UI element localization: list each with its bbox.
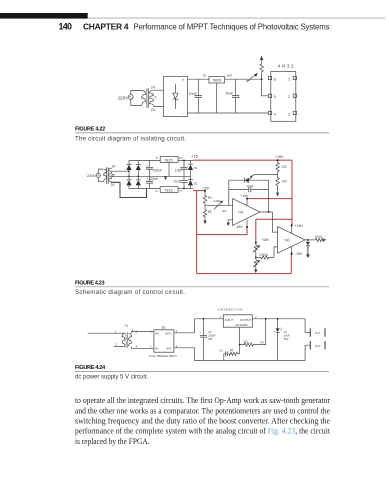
diode D1 inside rectifier	[173, 84, 178, 109]
svg-text:IN+: IN+	[155, 331, 160, 335]
svg-text:-: -	[182, 111, 184, 116]
red op1 -15V drop	[197, 227, 247, 235]
svg-text:R3: R3	[282, 165, 286, 169]
svg-text:741: 741	[238, 210, 244, 214]
svg-text:J2-1: J2-1	[315, 331, 321, 335]
svg-text:741: 741	[284, 238, 290, 242]
node -15	[204, 190, 206, 192]
red pot supply drop	[255, 219, 257, 242]
svg-text:out: out	[179, 189, 183, 193]
svg-text:24: 24	[112, 164, 116, 168]
capacitor C5 and resistor R4 chain	[219, 345, 240, 361]
svg-text:switching frequency and the du: switching frequency and the duty ratio o…	[75, 416, 330, 426]
svg-text:+15V: +15V	[295, 224, 304, 228]
bridge rectifier box	[164, 76, 188, 116]
svg-text:24: 24	[151, 108, 155, 112]
svg-text:is replaced by the FPGA.: is replaced by the FPGA.	[75, 436, 150, 446]
svg-text:4: 4	[274, 112, 276, 116]
svg-text:+15V: +15V	[241, 194, 250, 198]
svg-text:10uF: 10uF	[189, 92, 198, 96]
node adj	[239, 344, 241, 346]
capacitor C4 100uF	[146, 176, 158, 188]
node output	[307, 239, 309, 241]
diode D6 protection top	[188, 160, 198, 176]
svg-text:2: 2	[288, 95, 290, 99]
wire 7815 gnd stub	[168, 163, 170, 177]
capacitor C5 10uF	[175, 160, 188, 176]
transformer TR1 secondary	[150, 90, 154, 106]
svg-text:-15V: -15V	[202, 187, 210, 191]
center tap hook	[112, 174, 114, 176]
red left drop	[196, 191, 198, 274]
connector J2-1	[305, 319, 325, 337]
node cap6 bottom	[183, 188, 185, 190]
LED D2 with C2 labels	[274, 318, 291, 361]
svg-text:LM7805CTVS: LM7805CTVS	[218, 308, 242, 312]
wire source loop	[131, 91, 142, 106]
capacitor C3 100uF	[146, 160, 162, 176]
svg-text:to operate all the integrated: to operate all the integrated circuits. …	[75, 395, 330, 405]
node op1 -15V	[246, 226, 248, 228]
svg-text:0: 0	[154, 96, 156, 100]
pin 3	[293, 111, 296, 114]
capacitor C1 10uF	[189, 79, 202, 113]
wire - rail to 7915	[129, 187, 160, 189]
resistor R3	[276, 159, 287, 174]
pin 4	[268, 111, 271, 114]
node op2 +15V	[291, 224, 293, 226]
svg-text:OUT: OUT	[166, 346, 172, 350]
svg-text:100k: 100k	[214, 199, 221, 203]
svg-text:CHAPTER 4: CHAPTER 4	[83, 21, 129, 31]
diode D2 bridge col1 bottom	[126, 180, 131, 189]
AC source V2 220V	[87, 173, 100, 178]
svg-text:10uF: 10uF	[173, 179, 180, 183]
svg-text:FIGURE 4.23: FIGURE 4.23	[75, 280, 105, 286]
svg-text:OUT+: OUT+	[165, 331, 173, 335]
zener pair D8	[244, 175, 253, 183]
svg-text:2: 2	[255, 315, 257, 319]
svg-text:C1: C1	[208, 330, 212, 334]
red right drop to op amps	[291, 160, 293, 225]
AC source V1 220V	[118, 95, 134, 101]
svg-text:+: +	[274, 330, 276, 334]
pin 6	[268, 76, 271, 79]
svg-text:R5: R5	[222, 209, 226, 213]
op2 -15V stub	[291, 247, 293, 254]
svg-text:OUTPUT: OUTPUT	[240, 318, 252, 322]
svg-text:10uF: 10uF	[175, 169, 182, 173]
op-amp U5 741 sawtooth	[233, 199, 260, 226]
transformer core	[107, 167, 109, 184]
red feed pot rail	[256, 218, 292, 220]
node cap5 top	[183, 160, 185, 162]
wire source loop	[98, 169, 103, 182]
ground arrow pot chain	[254, 270, 257, 274]
ground arrow mid rail	[164, 176, 167, 180]
wire ac input bottom	[114, 345, 122, 347]
wire 7805 ground stub	[216, 83, 218, 113]
wire divider to op1 inv input	[205, 204, 233, 206]
regulator U3 7815	[156, 155, 183, 162]
diode D9 output	[306, 240, 310, 255]
node feedback-output	[268, 211, 270, 213]
wire bridge out+ to rail	[174, 319, 223, 333]
svg-text:C5: C5	[219, 348, 223, 352]
wire regulator output rail	[252, 318, 305, 320]
resistor R4	[276, 175, 287, 193]
node A junction	[261, 78, 263, 80]
svg-text:1: 1	[220, 315, 222, 319]
svg-text:+15V: +15V	[261, 238, 270, 242]
potentiometer R2 arrow	[246, 73, 258, 82]
potentiometer R5 100k	[214, 199, 227, 213]
feedback box top wire	[229, 180, 269, 212]
svg-text:ADJ/GND: ADJ/GND	[235, 323, 247, 327]
transformer TR1 primary	[142, 91, 146, 106]
svg-text:D1: D1	[162, 326, 166, 330]
svg-text:-15V: -15V	[236, 225, 244, 229]
header bar	[0, 13, 88, 19]
svg-text:The circuit diagram of isolati: The circuit diagram of isolating circuit…	[75, 135, 186, 142]
svg-text:+15V: +15V	[275, 155, 284, 159]
regulator U1 7805	[203, 74, 231, 83]
wire bridge out- to ground rail	[174, 348, 195, 361]
capacitor C1	[199, 318, 216, 361]
resistor R9 100ohm	[315, 234, 324, 241]
diode D1 bridge col1 top	[126, 160, 131, 180]
svg-text:FIGURE 4.24: FIGURE 4.24	[75, 365, 106, 371]
svg-text:out: out	[227, 74, 232, 78]
svg-text:3: 3	[288, 112, 290, 116]
op1 +15V stub	[246, 199, 248, 206]
wire node to pin5	[262, 79, 269, 96]
svg-text:120: 120	[243, 340, 248, 344]
resistor R1	[203, 191, 212, 205]
resistor R1 feedback	[240, 318, 267, 346]
op-amp U6 741 comparator	[278, 227, 306, 254]
node pot tap	[255, 257, 257, 259]
potentiometer R8	[253, 257, 260, 269]
svg-text:5: 5	[274, 95, 276, 99]
svg-text:R4: R4	[230, 348, 234, 352]
full bridge rectifier D1	[149, 326, 178, 358]
svg-text:FULL BRIDGE RECT: FULL BRIDGE RECT	[149, 354, 177, 358]
node mid-col2	[137, 175, 139, 177]
svg-text:4N32: 4N32	[278, 63, 295, 68]
svg-text:24: 24	[151, 85, 155, 89]
wire secondary to bridge top	[131, 332, 154, 334]
svg-text:T1: T1	[124, 324, 128, 328]
red bottom rail	[197, 273, 292, 275]
svg-text:10uF: 10uF	[284, 334, 290, 338]
svg-text:in: in	[203, 74, 206, 78]
wire secondary to bridge bottom	[131, 347, 154, 349]
red riser to op2 -15V	[290, 254, 292, 274]
resistor R7 100k to op2	[256, 247, 278, 259]
transformer T1	[122, 324, 138, 349]
diode D7 protection bottom	[188, 176, 198, 188]
svg-text:R4: R4	[282, 180, 286, 184]
svg-text:INPUT: INPUT	[225, 318, 234, 322]
svg-text:7815: 7815	[164, 158, 172, 162]
output arrow	[323, 239, 326, 242]
resistor R2	[203, 205, 212, 220]
svg-text:35V: 35V	[284, 337, 289, 341]
svg-text:4: 4	[136, 345, 138, 349]
svg-text:-15V: -15V	[295, 252, 303, 256]
wire ac input top	[88, 332, 122, 334]
svg-text:220V: 220V	[87, 173, 96, 178]
capacitor C2 10uF	[225, 79, 239, 113]
svg-text:100uF: 100uF	[153, 169, 162, 173]
svg-text:2: 2	[115, 343, 117, 347]
svg-text:R2: R2	[208, 210, 212, 214]
svg-text:out: out	[179, 155, 183, 159]
wire zener to R3R4 junction	[252, 175, 277, 176]
svg-text:100kΩ: 100kΩ	[259, 252, 269, 256]
wire adj stub	[239, 327, 241, 344]
svg-text:+: +	[182, 78, 185, 83]
wire ground rail	[194, 360, 305, 362]
optocoupler U2 4N32	[268, 63, 296, 121]
svg-text:6: 6	[274, 77, 276, 81]
node op2 -15V	[291, 253, 293, 255]
op1 noninv input ground	[228, 220, 232, 223]
svg-text:100Ω: 100Ω	[315, 234, 323, 238]
svg-text:J2-2: J2-2	[315, 344, 321, 348]
svg-text:in: in	[155, 189, 158, 193]
pin 2	[293, 94, 296, 97]
svg-text:Performance of MPPT Techniques: Performance of MPPT Techniques of Photov…	[134, 22, 330, 31]
red -15 wire	[193, 190, 205, 192]
svg-text:220V: 220V	[118, 95, 130, 100]
svg-text:FIGURE 4.22: FIGURE 4.22	[75, 126, 105, 132]
capacitor C6 10uF	[173, 176, 187, 188]
transformer TR2 primary	[104, 169, 107, 182]
svg-text:R1: R1	[208, 196, 212, 200]
svg-text:+: +	[199, 331, 201, 335]
svg-text:140: 140	[59, 21, 73, 31]
node pot supply	[255, 242, 257, 244]
svg-text:24: 24	[111, 183, 116, 188]
svg-text:220uF: 220uF	[208, 334, 216, 338]
connector J2-2	[305, 341, 325, 361]
wire op2 output	[305, 239, 315, 241]
svg-text:dc power supply 5 V circuit.: dc power supply 5 V circuit.	[75, 374, 148, 381]
svg-text:+15: +15	[191, 153, 198, 158]
wire op1 output to op2	[260, 212, 278, 232]
regulator U4 7915	[155, 187, 183, 193]
svg-text:D1: D1	[194, 166, 198, 170]
svg-text:Schematic diagram of control c: Schematic diagram of control circuit.	[75, 289, 185, 296]
svg-text:35V: 35V	[208, 337, 213, 341]
diode D4 bridge col2 bottom	[136, 180, 141, 189]
svg-text:in: in	[156, 155, 159, 159]
svg-text:+ 100uF: + 100uF	[147, 177, 159, 181]
svg-text:7915: 7915	[164, 188, 172, 192]
svg-text:performance of the complete sy: performance of the complete system with …	[75, 426, 331, 436]
op2 +15V stub	[291, 225, 293, 233]
wire top tap	[112, 170, 129, 172]
regulator U7 LM7805	[218, 308, 257, 328]
svg-text:1: 1	[115, 329, 117, 333]
wire +out rail	[178, 159, 193, 161]
ground arrow R4	[276, 193, 279, 197]
potentiometer R6	[253, 243, 260, 258]
op1 -15V stub	[246, 220, 248, 227]
wire mid rail 0V	[114, 175, 191, 177]
wire top rail	[188, 78, 262, 80]
svg-text:and the other one works as a c: and the other one works as a comparator.…	[75, 405, 330, 415]
svg-text:10nF: 10nF	[247, 184, 254, 188]
ground arrow output	[306, 254, 310, 258]
svg-text:+: +	[146, 163, 148, 167]
svg-text:1: 1	[288, 77, 290, 81]
wire bottom tap (thick return)	[112, 182, 147, 197]
red rail +15 top	[193, 159, 292, 161]
svg-text:10uF: 10uF	[225, 91, 234, 95]
wire secondary to rectifier	[154, 90, 164, 106]
wire bottom rail	[188, 112, 269, 114]
pin 1	[293, 76, 296, 79]
svg-text:D2: D2	[194, 181, 198, 185]
resistor R1 vertical	[260, 60, 264, 79]
capacitor C7 10nF feedback	[229, 184, 269, 192]
wire -out rail	[178, 187, 193, 189]
node op1 +15V	[246, 198, 248, 200]
header rule	[88, 17, 385, 19]
node mid-col1	[128, 176, 130, 178]
diode D3 bridge col2 top	[136, 160, 141, 180]
svg-text:7805: 7805	[212, 78, 222, 83]
transformer TR2 secondary	[108, 168, 111, 183]
ground arrow R2	[203, 220, 206, 224]
transformer core	[147, 88, 149, 108]
wire + rail to 7815	[129, 159, 160, 161]
svg-text:C2: C2	[284, 330, 288, 334]
node tap-D1	[128, 170, 130, 172]
pin 5	[268, 94, 271, 97]
+V up arrow	[260, 56, 263, 60]
svg-text:IN: IN	[155, 346, 158, 350]
svg-text:R1: R1	[261, 340, 265, 344]
red feed op1 +15V	[247, 198, 292, 200]
